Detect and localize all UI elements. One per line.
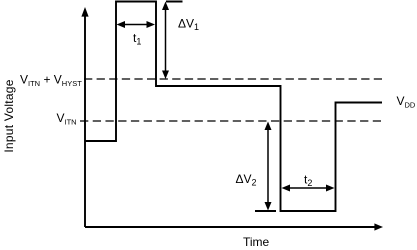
t2 measurement arrow — [282, 185, 335, 192]
t1 measurement arrow — [117, 21, 156, 28]
x-axis (Time) — [85, 223, 383, 230]
bottom level tick — [255, 210, 276, 212]
svg-text:Time: Time — [243, 235, 270, 249]
threshold dashed line VITN+VHYST — [84, 78, 382, 80]
input waveform — [85, 2, 382, 212]
deltaV2 measurement arrow — [265, 122, 272, 211]
y-axis (Input Voltage) — [81, 7, 88, 227]
svg-text:Input Voltage: Input Voltage — [2, 79, 16, 152]
threshold dashed line VITN — [80, 120, 381, 122]
deltaV1 measurement arrow — [162, 2, 169, 80]
top level tick — [166, 1, 183, 3]
